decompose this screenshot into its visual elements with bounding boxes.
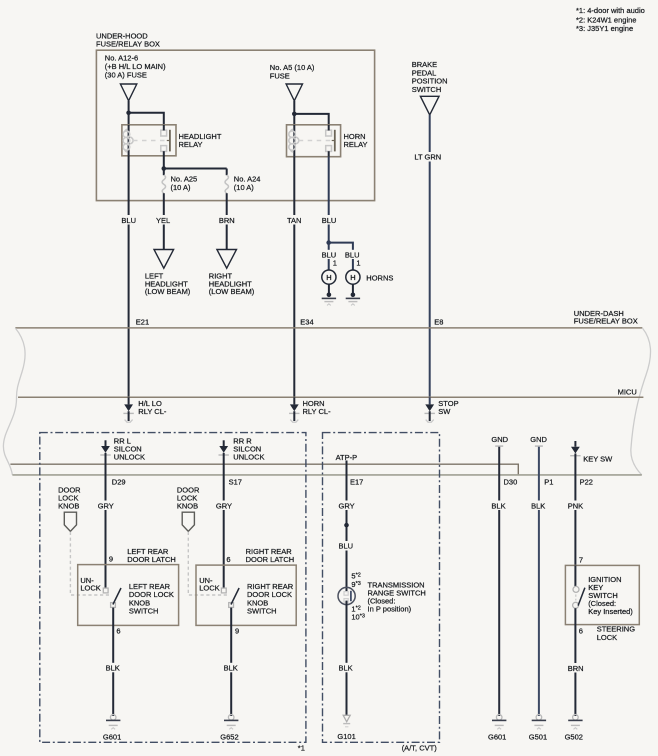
wire S17 through band [223,462,225,588]
transmission range switch symbol [338,587,355,604]
wire D30 down [498,447,500,716]
ground horn 2 [346,293,360,306]
pin label ATP-P [336,453,358,462]
svg-text:FUSE/RELAY BOX: FUSE/RELAY BOX [574,317,638,326]
svg-text:6: 6 [116,627,120,636]
node junction fuse branch [162,166,167,171]
svg-text:S17: S17 [229,477,242,486]
label PNK (P22) [566,501,585,511]
left rear door lock knob switch label [129,582,174,616]
under-hood fuse/relay box outline [96,50,374,200]
svg-text:BRN: BRN [219,216,235,225]
svg-text:E17: E17 [350,477,363,486]
wire BRN fuse A24 to right headlight [226,193,228,249]
ground G601 right [492,715,506,730]
label BLU (horn) [321,215,339,225]
node junction horn [292,112,297,117]
under-dash box left torn edge [3,328,25,475]
svg-text:H: H [326,273,331,282]
svg-text:G501: G501 [529,733,547,742]
svg-text:G101: G101 [337,732,355,741]
headlight relay coil wire [128,125,130,156]
pin label H/L LO RLY CL- [138,399,167,416]
node E17 [350,477,363,486]
ignition switch upper contact [573,586,579,592]
pin 7 ignition [579,555,583,564]
svg-text:In P position): In P position) [368,604,412,613]
headlight relay coil [123,129,133,152]
horn relay switch wires [328,125,330,157]
svg-text:BLK: BLK [491,501,505,510]
svg-text:LOCK: LOCK [199,583,219,592]
ground label G501 [529,733,547,742]
left knob switch upper contact [103,588,108,593]
svg-text:MICU: MICU [618,387,637,396]
pin 5*2 / 9*3 labels [351,572,360,589]
pin H/L LO RLY CL- [123,397,133,422]
horn relay coil wire [293,125,295,157]
label GND 2 [530,435,547,444]
svg-text:P22: P22 [580,477,593,486]
label UN-LOCK right [199,576,222,593]
pin RR L SILCON UNLOCK [100,440,110,462]
svg-text:*2: K24W1 engine: *2: K24W1 engine [576,15,636,24]
wire YEL fuse A25 to left headlight [163,193,165,249]
svg-text:*1: *1 [298,743,305,752]
svg-text:(30 A) FUSE: (30 A) FUSE [105,70,147,79]
ignition switch linkage dash [575,595,577,601]
node D29 [112,477,126,486]
micu narrow band top line with step [10,464,518,475]
svg-text:KNOB: KNOB [177,502,198,511]
MICU separator line [18,396,643,398]
right rear door latch box [196,565,296,625]
under-hood fuse/relay box label [96,32,160,49]
svg-text:GRY: GRY [98,501,114,510]
svg-text:9: 9 [109,555,113,564]
right door lock knob label [177,485,200,510]
relay HORN RELAY box [287,125,341,157]
wire branch to horn 2 [329,243,353,270]
svg-text:6: 6 [226,555,230,564]
ground G601 left [106,715,120,730]
svg-text:HORNS: HORNS [366,273,393,282]
option box A/T CVT tag [402,743,438,752]
right rear door lock knob switch label [247,582,294,616]
node P22 [580,477,593,486]
pin 1 horn 2 [356,258,360,267]
svg-text:1: 1 [333,258,337,267]
fuse No. A25 label [171,175,198,193]
micu narrow band bottom line [12,474,641,476]
wire BLU headlight coil to E21 [128,156,130,398]
svg-text:D29: D29 [112,477,126,486]
label YEL [155,215,173,225]
svg-text:(LOW BEAM): (LOW BEAM) [145,287,191,296]
wire branch to horn relay switch [294,114,328,126]
pin STOP SW [425,397,435,422]
svg-text:Key Inserted): Key Inserted) [588,607,633,616]
right headlight connector triangle [217,250,237,269]
node E21 [136,317,149,326]
transmission range switch label [368,581,426,614]
svg-text:GND: GND [530,435,547,444]
svg-text:P1: P1 [544,477,553,486]
ground G501 [532,715,546,730]
label TAN [286,215,303,225]
relay HEADLIGHT RELAY box [122,125,176,156]
svg-text:(A/T, CVT): (A/T, CVT) [402,743,438,752]
horn relay switch contacts [326,130,332,151]
label GRY (D29) [97,501,116,511]
relay HORN RELAY label [344,132,368,149]
under-dash box top edge [15,327,642,329]
label BLU horn 2 [344,250,362,260]
pin 1*2 / 10*3 labels [351,604,365,621]
svg-text:LT GRN: LT GRN [414,153,441,162]
svg-text:G601: G601 [103,733,121,742]
wire into fuse A25 [163,169,165,176]
label BRN [218,215,236,225]
right knob switch lower contact [229,603,234,608]
svg-text:(10 A): (10 A) [171,183,192,192]
wire D29 through band [105,462,107,588]
svg-text:BLK: BLK [339,664,353,673]
horn 1 symbol [322,270,336,284]
ground label G101 [337,732,355,741]
svg-text:H: H [350,273,355,282]
wire horn 2 to ground [352,284,354,295]
svg-text:RELAY: RELAY [179,140,203,149]
note *3 [576,24,633,33]
wire E17 switch to ground [346,601,348,715]
node splice E17 [344,523,349,528]
svg-text:PNK: PNK [568,501,583,510]
label UN-LOCK left [80,576,103,593]
pin RR R SILCON UNLOCK [219,440,229,462]
pin 1 horn 1 [333,258,337,267]
svg-text:GND: GND [491,435,508,444]
node junction headlight [126,111,131,116]
left knob switch lower contact [111,603,116,608]
svg-text:1: 1 [356,258,360,267]
right knob switch blade [231,588,239,605]
left knob linkage dashed [70,532,110,595]
fuse No. A24 element [225,175,228,193]
svg-text:DOOR LATCH: DOOR LATCH [246,555,295,564]
relay HEADLIGHT RELAY label [179,132,222,149]
svg-text:KNOB: KNOB [58,502,79,511]
wire P1 down [538,447,540,716]
option box A/T CVT [323,433,440,743]
svg-text:BLK: BLK [224,664,238,673]
svg-text:SWITCH: SWITCH [129,607,159,616]
svg-text:9: 9 [235,627,239,636]
svg-text:E34: E34 [300,317,313,326]
svg-text:G502: G502 [565,733,583,742]
svg-text:TAN: TAN [287,216,301,225]
pin 9 left latch [109,555,113,564]
left headlight label [145,272,191,297]
svg-text:(LOW BEAM): (LOW BEAM) [209,287,255,296]
svg-text:GRY: GRY [339,501,355,510]
brake pedal position switch label [412,60,448,94]
pin label STOP SW [438,399,458,416]
svg-text:FUSE/RELAY BOX: FUSE/RELAY BOX [96,40,160,49]
label GRY (E17) [337,501,356,511]
note *2 [576,15,636,24]
ignition switch blade [578,588,585,606]
wire branch to fuse A24 [164,168,227,170]
label BLK (G101) [337,663,356,673]
node S17 [229,477,242,486]
fuse No. A5 label [270,63,315,80]
label BRN [566,663,585,673]
horn relay coil [289,129,299,152]
fuse No. A12-6 connector triangle [120,84,136,101]
gnd terminal 1 [495,445,503,447]
ignition switch lower contact [573,602,579,608]
ignition key switch label [588,575,633,616]
pin 6 ignition [577,626,584,635]
node junction horns [326,240,331,245]
svg-text:BLK: BLK [106,664,120,673]
fuse No. A25 element [162,175,165,193]
gnd terminal 2 [535,445,543,447]
wire LT GRN brake switch to E8 [429,115,431,398]
fuse No. A12-6 label [105,53,166,79]
label BLK (D30) [490,501,509,511]
left door lock knob symbol [64,512,76,531]
svg-text:BLU: BLU [121,216,136,225]
label BLU (E17 splice) [337,541,356,551]
node E34 [300,317,313,326]
label BLK (P1) [530,501,549,511]
ground horn 1 [322,293,336,306]
label GND 1 [491,435,508,444]
pin HORN RLY CL- [289,397,299,422]
svg-text:BLU: BLU [339,542,354,551]
left knob switch blade [113,588,121,605]
svg-text:*3: J35Y1 engine: *3: J35Y1 engine [576,24,633,33]
pin label HORN RLY CL- [303,399,332,416]
svg-text:(10 A): (10 A) [234,183,255,192]
MICU label [618,387,637,396]
wire to horn 1 [328,243,330,270]
svg-text:FUSE: FUSE [270,71,290,80]
fuse No. A5 connector triangle [286,84,302,101]
svg-text:BRN: BRN [568,664,584,673]
label LT GRN [413,152,446,162]
svg-text:BLK: BLK [531,501,545,510]
headlight relay switch blade [167,130,170,152]
horn relay linkage dashed [299,140,331,142]
ignition key switch box [565,565,639,624]
pin label RR L SILCON UNLOCK [114,437,145,462]
wire horn 1 to ground [328,284,330,295]
pin 9 right latch [234,627,241,636]
pin KEY SW [570,441,580,462]
horn 2 symbol [346,270,360,284]
label GRY (S17) [215,501,234,511]
left rear door latch label [127,547,176,564]
node P1 [544,477,553,486]
right knob linkage dashed [188,532,228,595]
left headlight connector triangle [154,250,174,269]
svg-text:BLU: BLU [322,216,337,225]
wire A12-6 to junction [128,101,130,125]
wire A24 drop [226,169,228,176]
svg-text:RLY CL-: RLY CL- [303,407,332,416]
svg-text:YEL: YEL [156,216,170,225]
right door lock knob symbol [182,512,194,531]
left door lock knob label [58,485,81,510]
wire P22 down [574,462,576,565]
svg-text:UNLOCK: UNLOCK [114,453,145,462]
pin 6 left latch [115,627,122,636]
svg-text:7: 7 [579,555,583,564]
svg-text:D30: D30 [504,477,518,486]
svg-text:KEY SW: KEY SW [583,455,613,464]
right rear door latch label [246,547,295,564]
headlight relay switch contacts [161,130,167,151]
headlight relay linkage dashed [133,140,166,142]
svg-text:G601: G601 [488,733,506,742]
pin label KEY SW [583,455,613,464]
wire left latch to ground [112,608,114,716]
ground G502 [568,715,582,730]
svg-text:RELAY: RELAY [344,140,368,149]
ground label G502 [565,733,583,742]
note *1 [576,6,645,15]
fuse No. A24 label [234,175,261,193]
ground label G652 [220,733,238,742]
horn relay switch blade [332,130,335,152]
option box *1 tag [298,743,305,752]
under-dash fuse/relay box label [574,309,638,325]
steering lock label [597,625,636,642]
svg-text:6: 6 [579,626,583,635]
svg-text:G652: G652 [220,733,238,742]
svg-text:SWITCH: SWITCH [412,85,442,94]
wire branch to headlight relay switch [129,113,164,126]
brake pedal position switch connector triangle [420,96,439,115]
wire E17 through band [346,461,348,593]
svg-text:SW: SW [438,407,451,416]
svg-text:ATP-P: ATP-P [336,453,358,462]
ground G652 [224,715,238,730]
node E8 [434,317,443,326]
ignition switch wire out [574,608,576,716]
svg-text:RLY CL-: RLY CL- [138,407,167,416]
ground G101 [343,715,350,727]
svg-text:LOCK: LOCK [80,583,100,592]
ground label G601 left [103,733,121,742]
wire A5 to junction [293,101,295,125]
label BLU (headlight) [120,215,138,225]
svg-text:SWITCH: SWITCH [247,607,277,616]
svg-text:UNLOCK: UNLOCK [233,453,264,462]
label BLK right latch [223,663,242,673]
wire BLU horn switch to horns junction [328,157,330,243]
under-dash box right torn edge [631,328,651,475]
left rear door latch box [78,565,179,626]
label BLU horn 1 [321,250,339,260]
svg-text:E21: E21 [136,317,149,326]
option box *1 (4-door with audio) [40,433,306,743]
svg-text:*1: 4-door with audio: *1: 4-door with audio [576,6,645,15]
wire right latch to ground [230,608,232,716]
label BLK left latch [105,663,124,673]
ignition switch wire in [574,565,576,586]
right knob switch upper contact [221,588,226,593]
ground label G601 right [488,733,506,742]
wire TAN horn coil to E34 [293,157,295,398]
svg-text:E8: E8 [434,317,443,326]
headlight relay switch wires [163,125,165,169]
svg-text:DOOR LATCH: DOOR LATCH [127,555,176,564]
right headlight label [209,272,255,297]
pin 6 right latch [226,555,230,564]
node D30 [504,477,518,486]
svg-text:GRY: GRY [216,501,232,510]
label HORNS [366,273,393,282]
svg-text:LOCK: LOCK [597,633,617,642]
pin label RR R SILCON UNLOCK [233,437,264,462]
